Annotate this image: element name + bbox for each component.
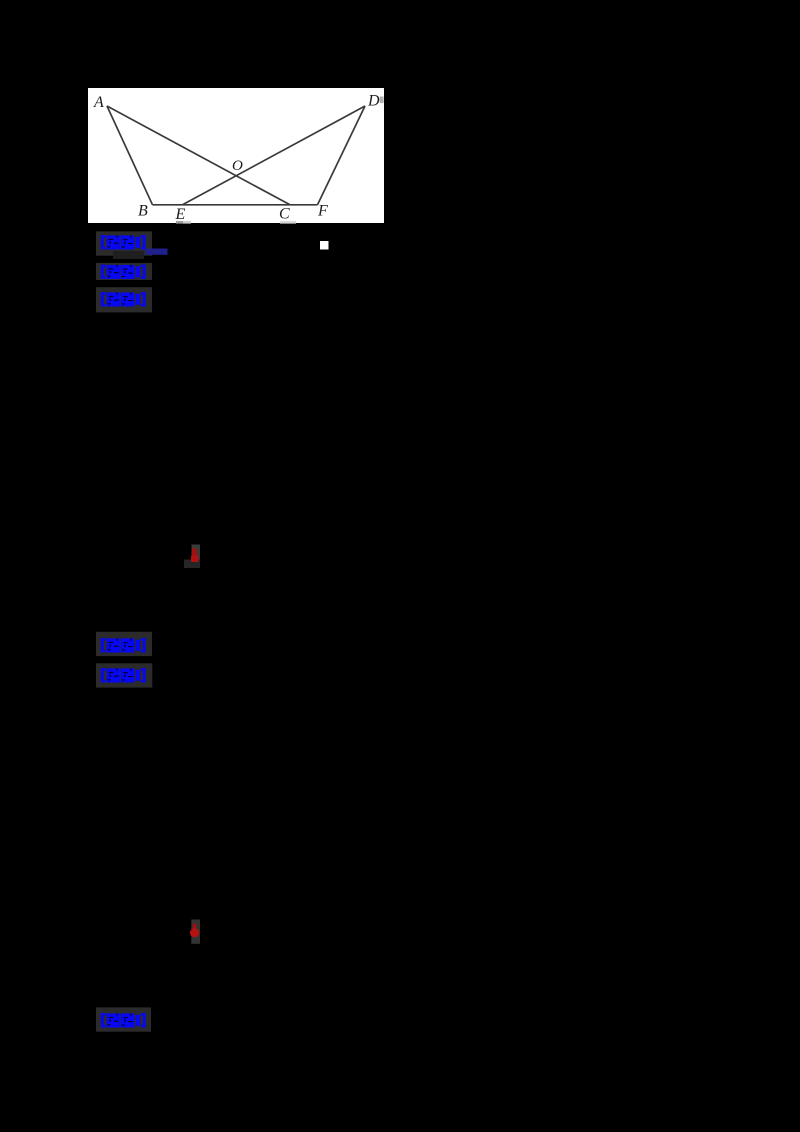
wire DE — [183, 106, 366, 205]
label fenxi-1 halo — [96, 263, 152, 280]
svg-text:D: D — [367, 93, 380, 110]
wire AC — [107, 106, 290, 205]
underline artifact below C — [280, 221, 296, 224]
node E — [175, 206, 186, 223]
node F — [317, 203, 328, 220]
svg-text:C: C — [279, 206, 290, 223]
cursor artifact near D — [380, 97, 384, 104]
svg-text:A: A — [93, 94, 104, 111]
svg-text:F: F — [317, 203, 328, 220]
red mark 2 — [190, 924, 199, 938]
label dianping — [101, 1013, 146, 1028]
label jieda-1 — [101, 292, 146, 307]
label kaodian — [101, 235, 146, 250]
red mark 2 patch — [191, 920, 200, 944]
red mark 1 patch — [184, 545, 200, 569]
svg-text:O: O — [232, 158, 243, 174]
underline artifact below E — [176, 221, 191, 224]
white bullet — [320, 241, 329, 250]
svg-text:E: E — [175, 206, 186, 223]
node O — [232, 158, 243, 174]
label fenxi-2 halo — [96, 632, 152, 656]
label fenxi-2 — [101, 638, 146, 653]
label jieda-2 — [101, 668, 146, 683]
link underline after kaodian — [146, 249, 168, 255]
svg-text:B: B — [138, 203, 148, 220]
label fenxi-1 — [101, 265, 146, 280]
node B — [138, 203, 148, 220]
figure panel — [88, 88, 384, 223]
label jieda-2 halo — [96, 663, 152, 687]
label kaodian halo — [96, 231, 152, 259]
node D — [367, 93, 380, 110]
node A — [93, 94, 104, 111]
wire BF — [153, 204, 318, 206]
label jieda-1 halo — [96, 287, 152, 312]
node C — [279, 206, 290, 223]
label dianping halo — [96, 1007, 151, 1031]
wire AB — [107, 106, 153, 205]
red mark 1 — [191, 548, 199, 562]
wire DF — [318, 106, 366, 205]
